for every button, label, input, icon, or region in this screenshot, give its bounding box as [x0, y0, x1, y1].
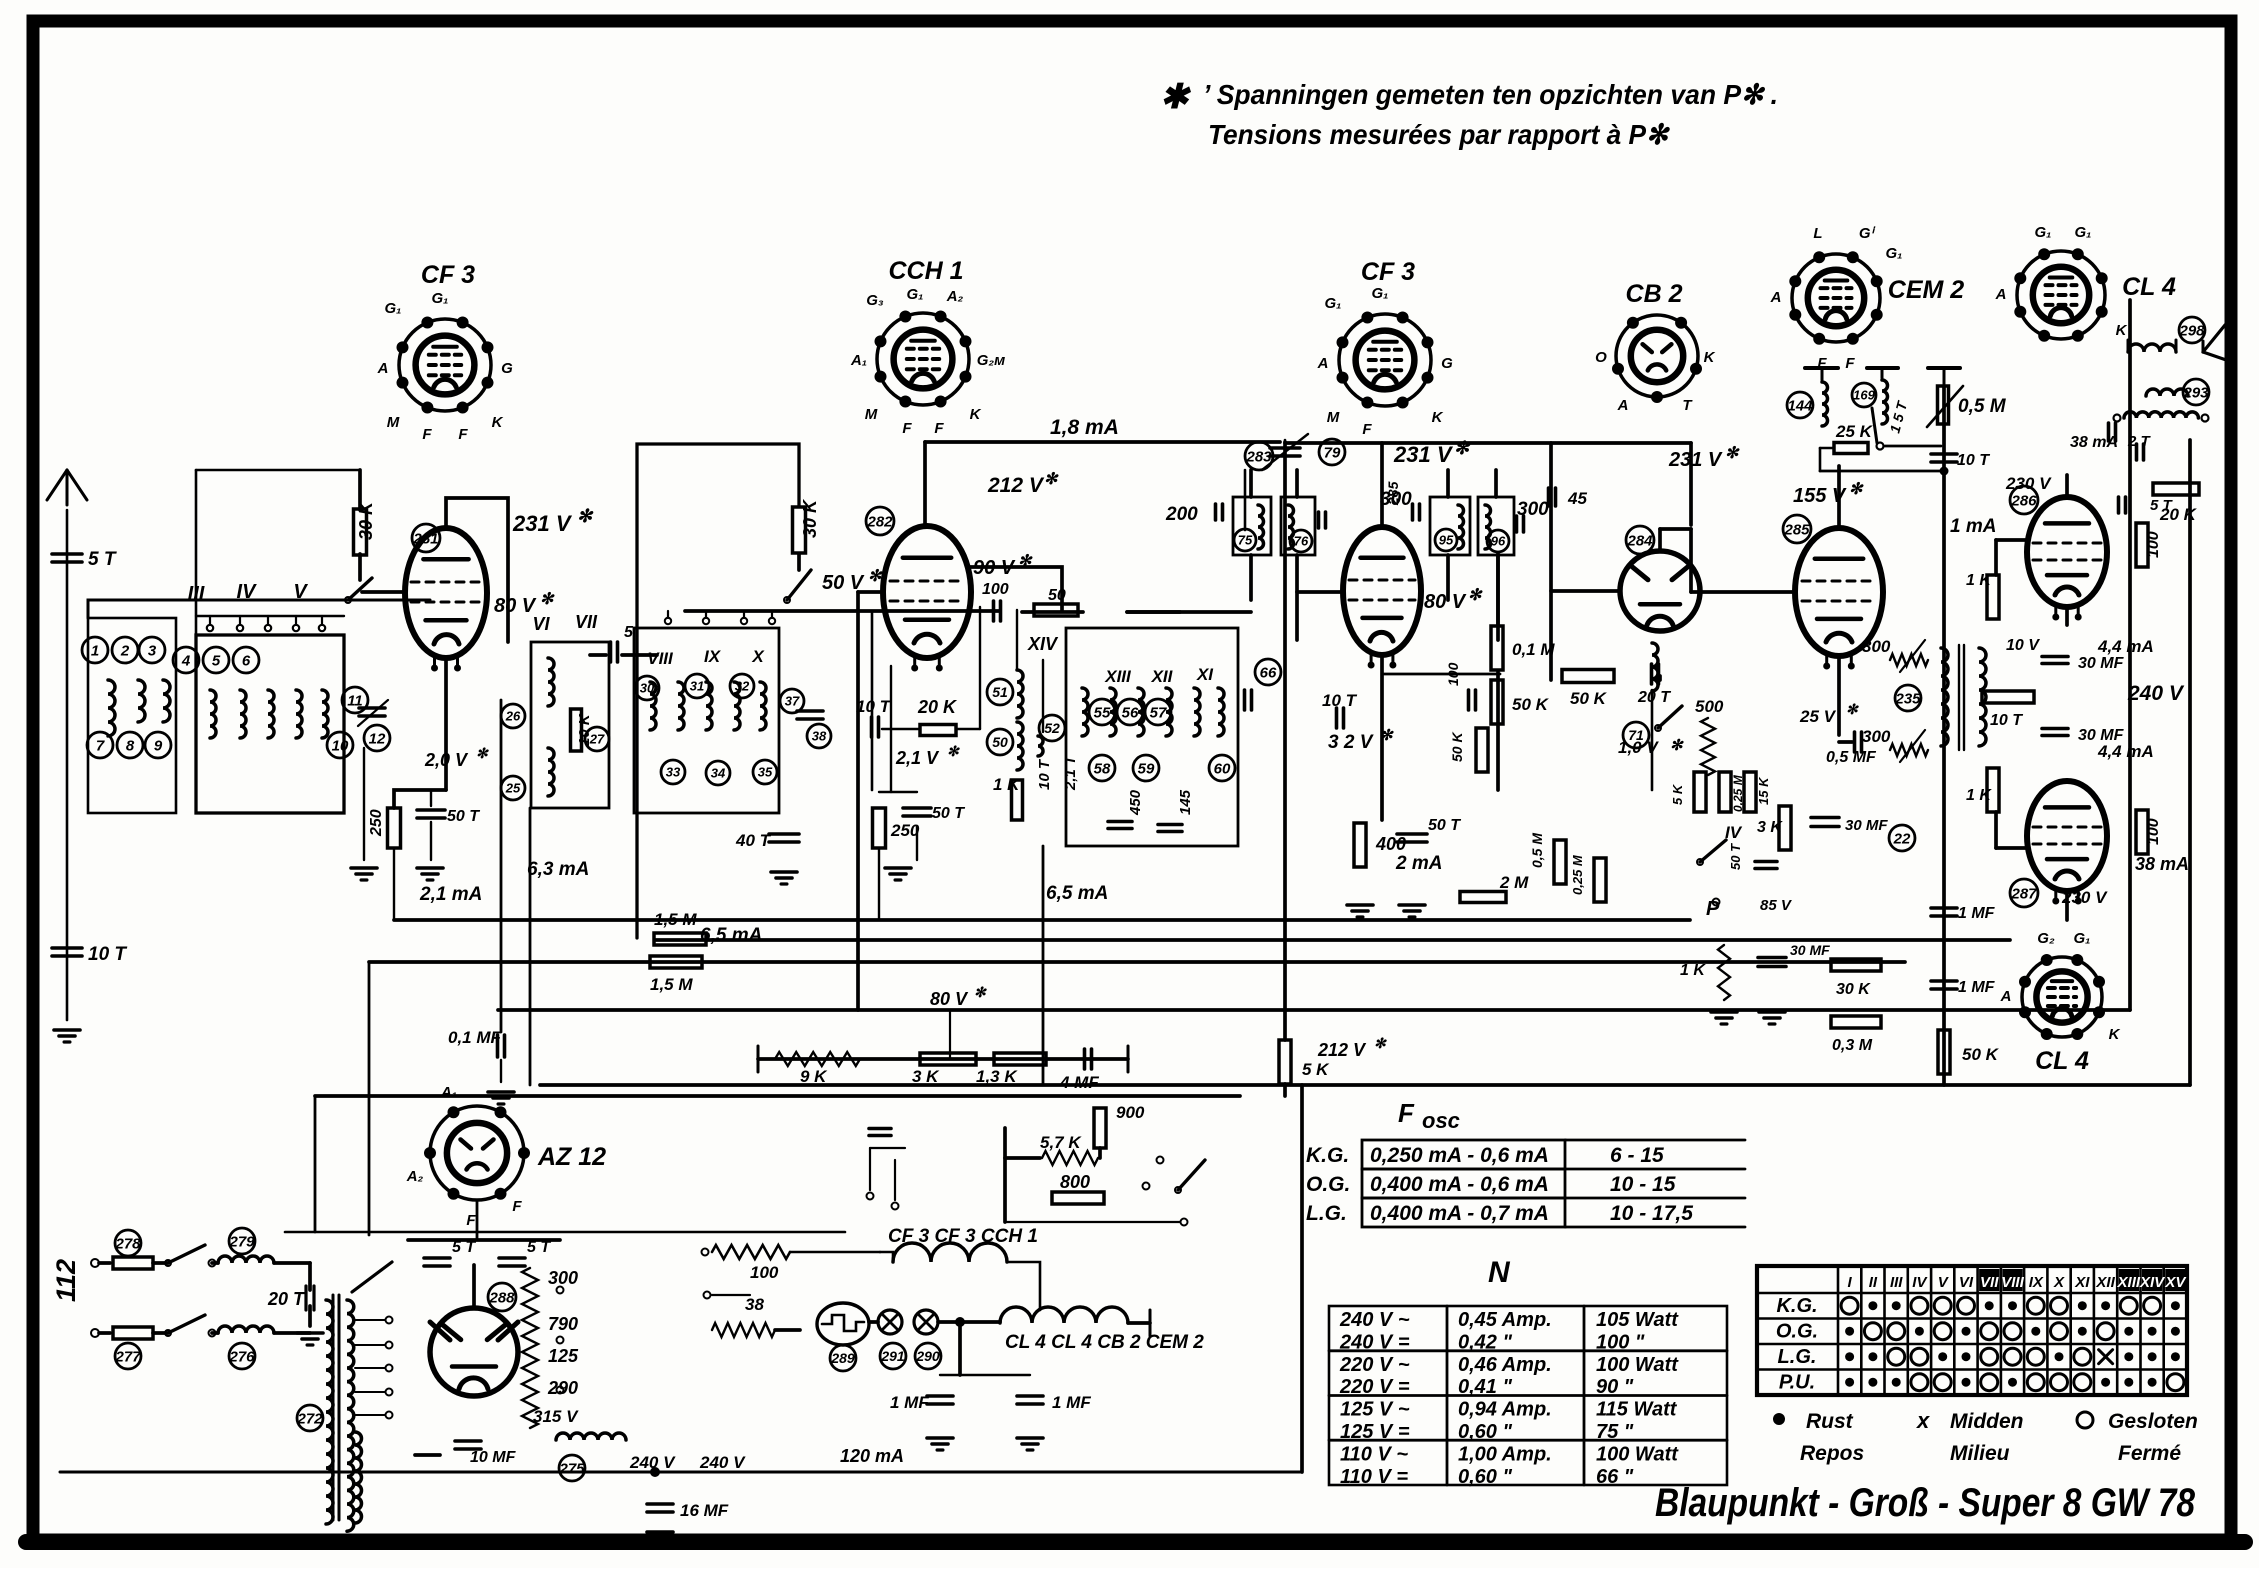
svg-text:400: 400 [1375, 834, 1406, 854]
svg-text:100: 100 [2145, 818, 2162, 845]
svg-text:VII: VII [1980, 1274, 1999, 1291]
svg-text:CCH 1: CCH 1 [888, 257, 963, 285]
svg-text:30 MF: 30 MF [2078, 655, 2125, 672]
svg-text:38 mA: 38 mA [2135, 854, 2189, 874]
svg-text:212 V: 212 V [1317, 1040, 1367, 1060]
svg-text:AZ 12: AZ 12 [537, 1143, 606, 1171]
svg-text:10 - 17,5: 10 - 17,5 [1610, 1202, 1693, 1225]
svg-text:A₂: A₂ [946, 288, 964, 305]
svg-text:5: 5 [624, 624, 634, 641]
svg-text:60: 60 [1214, 760, 1231, 777]
svg-text:38: 38 [812, 729, 827, 744]
svg-text:25: 25 [505, 781, 521, 796]
svg-text:120 mA: 120 mA [840, 1446, 904, 1466]
svg-text:G₁: G₁ [432, 290, 449, 307]
svg-text:✻: ✻ [947, 743, 960, 759]
svg-text:277: 277 [114, 1348, 141, 1365]
svg-text:10 T: 10 T [1036, 758, 1053, 790]
svg-text:80 V: 80 V [1424, 591, 1467, 613]
svg-text:1: 1 [91, 642, 99, 659]
svg-text:K.G.: K.G. [1776, 1295, 1817, 1317]
svg-text:1,5 M: 1,5 M [650, 975, 693, 994]
svg-text:XIV: XIV [2139, 1274, 2166, 1291]
svg-text:20 K: 20 K [917, 697, 958, 717]
svg-text:2 M: 2 M [1499, 873, 1529, 892]
svg-text:1,3 K: 1,3 K [976, 1067, 1018, 1086]
svg-text:6,3 mA: 6,3 mA [527, 859, 589, 880]
svg-text:50 T: 50 T [1728, 843, 1743, 870]
svg-text:298: 298 [2178, 322, 2205, 339]
svg-text:6,5 mA: 6,5 mA [1046, 883, 1108, 904]
svg-text:33: 33 [666, 765, 681, 780]
svg-text:4: 4 [181, 652, 191, 669]
svg-text:30 MF: 30 MF [2078, 727, 2125, 744]
svg-text:115 Watt: 115 Watt [1596, 1399, 1678, 1421]
svg-text:2 mA: 2 mA [1395, 853, 1442, 874]
svg-text:G₁: G₁ [2035, 224, 2052, 241]
svg-text:4,4 mA: 4,4 mA [2097, 637, 2154, 656]
svg-text:35: 35 [758, 765, 773, 780]
svg-text:G₁: G₁ [2074, 930, 2091, 947]
svg-text:CB 2: CB 2 [1626, 280, 1683, 308]
svg-text:Gⁱ: Gⁱ [1859, 225, 1876, 242]
svg-text:1 MF: 1 MF [1052, 1393, 1091, 1412]
svg-text:212 V: 212 V [987, 474, 1045, 497]
svg-text:240 V: 240 V [699, 1453, 746, 1472]
svg-text:1 mA: 1 mA [1950, 516, 1996, 537]
svg-text:K: K [2116, 322, 2128, 339]
svg-text:300: 300 [1380, 489, 1412, 510]
svg-text:169: 169 [1853, 388, 1875, 403]
svg-text:283: 283 [1245, 448, 1272, 465]
svg-text:25 V: 25 V [1799, 707, 1837, 726]
svg-text:1 K: 1 K [1966, 572, 1992, 589]
svg-text:II: II [1869, 1274, 1878, 1291]
svg-text:1 K: 1 K [1680, 962, 1706, 979]
svg-text:10 V: 10 V [2006, 637, 2040, 654]
svg-text:240 V: 240 V [2127, 682, 2185, 705]
svg-text:0,94 Amp.: 0,94 Amp. [1458, 1399, 1552, 1421]
svg-text:X: X [2053, 1274, 2065, 1291]
svg-text:F: F [1845, 355, 1855, 372]
svg-text:A: A [377, 360, 389, 377]
svg-text:500: 500 [1695, 697, 1724, 716]
svg-text:CEM 2: CEM 2 [1888, 276, 1965, 304]
svg-text:G₁: G₁ [1372, 285, 1389, 302]
svg-text:31: 31 [690, 679, 704, 694]
svg-text:231 V: 231 V [1393, 442, 1454, 467]
svg-text:56: 56 [1122, 704, 1139, 721]
svg-text:✻: ✻ [1846, 701, 1859, 717]
svg-text:10 MF: 10 MF [470, 1449, 517, 1466]
svg-text:G₃: G₃ [866, 292, 884, 309]
svg-text:27: 27 [589, 732, 605, 747]
svg-text:0,3 M: 0,3 M [1832, 1037, 1873, 1054]
svg-text:10: 10 [332, 737, 349, 754]
svg-text:10 T: 10 T [1957, 452, 1990, 469]
svg-text:50 T: 50 T [1428, 817, 1461, 834]
svg-text:2: 2 [120, 642, 130, 659]
svg-text:F: F [1398, 1098, 1415, 1128]
svg-text:145: 145 [1177, 789, 1194, 815]
svg-text:’ Spanningen gemeten ten opzic: ’ Spanningen gemeten ten opzichten van P… [1203, 79, 1778, 110]
svg-text:235: 235 [1894, 690, 1921, 707]
svg-text:25 K: 25 K [1835, 422, 1874, 441]
svg-text:293: 293 [2182, 384, 2209, 401]
svg-text:L.G.: L.G. [1778, 1346, 1817, 1368]
svg-text:G₂ᴍ: G₂ᴍ [977, 352, 1005, 369]
svg-text:110 V ~: 110 V ~ [1340, 1443, 1408, 1465]
svg-text:50: 50 [992, 734, 1008, 750]
svg-text:790: 790 [548, 1314, 578, 1334]
svg-text:K: K [2109, 1026, 2121, 1043]
svg-text:281: 281 [412, 530, 438, 547]
svg-text:K: K [970, 406, 982, 423]
svg-text:284: 284 [1626, 532, 1653, 549]
svg-text:M: M [865, 406, 878, 423]
svg-text:1,0 V: 1,0 V [1618, 738, 1659, 757]
svg-text:F: F [466, 1212, 476, 1229]
svg-text:0,400 mA - 0,7 mA: 0,400 mA - 0,7 mA [1370, 1202, 1549, 1225]
svg-text:Midden: Midden [1950, 1410, 2024, 1433]
svg-text:240 V ~: 240 V ~ [1339, 1309, 1410, 1331]
svg-text:800: 800 [1060, 1172, 1090, 1192]
svg-text:1 K: 1 K [993, 775, 1021, 794]
svg-text:L.G.: L.G. [1306, 1202, 1347, 1225]
svg-text:0,60 ": 0,60 " [1458, 1421, 1512, 1443]
svg-text:Rust: Rust [1806, 1410, 1854, 1433]
svg-text:1,00 Amp.: 1,00 Amp. [1458, 1443, 1552, 1465]
svg-text:A: A [1317, 355, 1329, 372]
svg-text:✻: ✻ [577, 506, 594, 526]
svg-text:230 V: 230 V [2005, 474, 2052, 493]
svg-text:275: 275 [558, 1460, 585, 1477]
svg-text:75: 75 [1238, 533, 1253, 548]
svg-text:300: 300 [1862, 637, 1891, 656]
svg-text:O.G.: O.G. [1776, 1321, 1818, 1343]
svg-text:100: 100 [750, 1263, 779, 1282]
svg-text:52: 52 [1044, 720, 1060, 736]
svg-text:100: 100 [1445, 662, 1461, 686]
svg-text:K.G.: K.G. [1306, 1144, 1349, 1167]
svg-text:278: 278 [114, 1235, 141, 1252]
svg-text:20 T: 20 T [1637, 689, 1671, 706]
svg-text:0,5 M: 0,5 M [1958, 396, 2007, 417]
svg-text:50 T: 50 T [447, 808, 480, 825]
svg-text:200: 200 [1165, 504, 1198, 525]
svg-text:M: M [387, 414, 400, 431]
svg-text:30 K: 30 K [800, 498, 820, 538]
svg-text:5,7 K: 5,7 K [1040, 1133, 1082, 1152]
svg-text:22: 22 [1893, 830, 1911, 847]
svg-text:76: 76 [1294, 534, 1309, 549]
svg-text:XII: XII [1151, 667, 1174, 686]
svg-text:66 ": 66 " [1596, 1466, 1634, 1488]
svg-text:291: 291 [880, 1348, 905, 1364]
svg-text:✱: ✱ [1160, 78, 1192, 116]
svg-text:30 MF: 30 MF [1845, 817, 1888, 834]
svg-text:1 K: 1 K [1966, 787, 1992, 804]
svg-text:6,5 mA: 6,5 mA [700, 925, 762, 946]
svg-text:2,1 T: 2,1 T [1062, 754, 1079, 791]
svg-text:900: 900 [1116, 1103, 1145, 1122]
svg-text:IV: IV [1912, 1274, 1928, 1291]
svg-text:279: 279 [228, 1233, 255, 1250]
svg-text:K: K [1432, 409, 1444, 426]
svg-text:300: 300 [548, 1268, 578, 1288]
svg-text:M: M [1327, 409, 1340, 426]
svg-text:osc: osc [1422, 1108, 1460, 1133]
svg-text:III: III [1890, 1274, 1903, 1291]
svg-text:285: 285 [1783, 521, 1810, 538]
svg-text:0,46 Amp.: 0,46 Amp. [1458, 1354, 1552, 1376]
svg-text:10 T: 10 T [1322, 691, 1358, 710]
svg-text:12: 12 [369, 730, 386, 747]
svg-text:G: G [1441, 355, 1453, 372]
svg-text:276: 276 [228, 1348, 255, 1365]
svg-text:30 K: 30 K [1836, 981, 1871, 998]
svg-text:G₁: G₁ [385, 300, 402, 317]
svg-text:100 Watt: 100 Watt [1596, 1443, 1679, 1465]
svg-text:0,5 M: 0,5 M [1529, 833, 1545, 868]
svg-text:Repos: Repos [1800, 1442, 1864, 1465]
svg-text:✻: ✻ [1468, 587, 1483, 604]
svg-text:315 V: 315 V [533, 1407, 579, 1426]
svg-text:125 V ~: 125 V ~ [1340, 1399, 1410, 1421]
svg-text:0,400 mA - 0,6 mA: 0,400 mA - 0,6 mA [1370, 1173, 1549, 1196]
svg-text:55: 55 [1094, 704, 1111, 721]
svg-text:85 V: 85 V [1760, 897, 1793, 914]
svg-text:0,1 MF: 0,1 MF [448, 1028, 502, 1047]
svg-text:50 K: 50 K [1570, 689, 1608, 708]
svg-text:VIII: VIII [2001, 1274, 2024, 1291]
svg-text:VI: VI [1959, 1274, 1974, 1291]
svg-text:0,41 ": 0,41 " [1458, 1376, 1512, 1398]
svg-text:5 K: 5 K [1302, 1060, 1330, 1079]
svg-text:✻: ✻ [974, 984, 987, 1000]
svg-text:✻: ✻ [540, 591, 555, 608]
svg-text:3 K: 3 K [1757, 819, 1783, 836]
svg-text:3 K: 3 K [912, 1067, 940, 1086]
svg-text:100 Watt: 100 Watt [1596, 1354, 1679, 1376]
svg-text:X: X [751, 647, 765, 666]
svg-text:4,4 mA: 4,4 mA [2097, 742, 2154, 761]
svg-text:10 T: 10 T [88, 944, 127, 965]
svg-text:A: A [1617, 397, 1629, 414]
svg-text:✻: ✻ [1725, 445, 1740, 462]
svg-text:300: 300 [1862, 727, 1891, 746]
svg-text:G₁: G₁ [907, 286, 924, 303]
svg-text:A₂: A₂ [406, 1168, 424, 1185]
svg-text:100: 100 [982, 581, 1009, 598]
svg-text:96: 96 [1491, 534, 1506, 549]
svg-text:XI: XI [2074, 1274, 2090, 1291]
svg-text:112: 112 [51, 1259, 81, 1302]
svg-text:XV: XV [2164, 1274, 2187, 1291]
svg-text:26: 26 [505, 709, 521, 724]
svg-text:A: A [1770, 289, 1782, 306]
svg-text:38: 38 [745, 1295, 764, 1314]
svg-text:58: 58 [1094, 760, 1111, 777]
svg-text:240 V =: 240 V = [1339, 1331, 1410, 1353]
svg-text:G: G [501, 360, 513, 377]
svg-text:45: 45 [1567, 489, 1587, 508]
svg-text:A: A [2000, 988, 2012, 1005]
svg-text:VIII: VIII [647, 649, 674, 668]
svg-text:7: 7 [96, 737, 105, 754]
svg-text:P.U.: P.U. [1779, 1372, 1815, 1394]
svg-text:CL 4: CL 4 [2035, 1047, 2089, 1075]
svg-text:CL 4 CL 4 CB 2 CEM 2: CL 4 CL 4 CB 2 CEM 2 [1005, 1332, 1204, 1353]
svg-text:K: K [492, 414, 504, 431]
svg-text:286: 286 [2010, 492, 2037, 509]
svg-text:L: L [1813, 225, 1822, 242]
svg-text:0,5 MF: 0,5 MF [1826, 749, 1877, 766]
svg-text:XIII: XIII [1104, 667, 1132, 686]
svg-text:50 K: 50 K [1449, 732, 1465, 762]
svg-text:F: F [934, 420, 944, 437]
svg-text:5 K: 5 K [1670, 783, 1685, 805]
svg-text:125: 125 [548, 1346, 579, 1366]
svg-text:450: 450 [1127, 789, 1144, 816]
svg-text:✻: ✻ [476, 745, 489, 761]
svg-text:0,60 ": 0,60 " [1458, 1466, 1512, 1488]
svg-text:289: 289 [830, 1350, 855, 1366]
svg-text:10 - 15: 10 - 15 [1610, 1173, 1676, 1196]
svg-text:IV: IV [1725, 823, 1743, 842]
svg-text:CL 4: CL 4 [2122, 273, 2176, 301]
svg-text:66: 66 [1260, 664, 1277, 681]
svg-text:XI: XI [1196, 665, 1214, 684]
svg-text:G₁: G₁ [1325, 295, 1342, 312]
svg-text:0,250 mA - 0,6 mA: 0,250 mA - 0,6 mA [1370, 1144, 1549, 1167]
svg-text:CF 3: CF 3 [421, 261, 475, 289]
svg-text:CF 3: CF 3 [1361, 258, 1415, 286]
svg-text:XIV: XIV [1027, 634, 1059, 654]
svg-text:6 - 15: 6 - 15 [1610, 1144, 1664, 1167]
svg-text:VII: VII [575, 612, 598, 632]
svg-text:272: 272 [296, 1410, 323, 1427]
svg-text:F: F [512, 1198, 522, 1215]
svg-text:0,42 ": 0,42 " [1458, 1331, 1512, 1353]
svg-text:x: x [1916, 1408, 1930, 1433]
svg-text:282: 282 [866, 513, 893, 530]
svg-text:10 T: 10 T [1990, 712, 2023, 729]
svg-text:Blaupunkt - Groß - Super 8 GW: Blaupunkt - Groß - Super 8 GW 78 [1655, 1481, 2196, 1525]
svg-text:220 V =: 220 V = [1339, 1376, 1410, 1398]
svg-text:O: O [1595, 349, 1607, 366]
svg-text:1,5 M: 1,5 M [654, 910, 697, 929]
svg-text:O.G.: O.G. [1306, 1173, 1350, 1196]
svg-text:Fermé: Fermé [2118, 1442, 2181, 1465]
svg-text:0,25 M: 0,25 M [1570, 854, 1585, 895]
svg-text:A: A [1995, 286, 2007, 303]
svg-text:34: 34 [711, 766, 726, 781]
svg-text:1 MF: 1 MF [890, 1393, 929, 1412]
svg-text:20 T: 20 T [267, 1289, 306, 1309]
svg-text:Milieu: Milieu [1950, 1442, 2010, 1465]
svg-text:5 T: 5 T [88, 549, 117, 570]
svg-text:5 T: 5 T [2150, 497, 2174, 514]
svg-text:300: 300 [1517, 499, 1549, 520]
svg-text:250: 250 [890, 821, 920, 840]
svg-text:IX: IX [2029, 1274, 2044, 1291]
svg-text:K: K [1704, 349, 1716, 366]
svg-text:50 T: 50 T [932, 805, 965, 822]
svg-text:75 ": 75 " [1596, 1421, 1634, 1443]
svg-text:F: F [902, 420, 912, 437]
svg-text:16 MF: 16 MF [680, 1501, 729, 1520]
svg-text:Gesloten: Gesloten [2108, 1410, 2198, 1433]
svg-text:80 V: 80 V [930, 989, 969, 1009]
svg-text:79: 79 [1324, 444, 1341, 461]
svg-text:30: 30 [640, 681, 655, 696]
svg-text:40 T: 40 T [735, 831, 772, 850]
svg-text:110 V =: 110 V = [1340, 1466, 1408, 1488]
svg-text:80 V: 80 V [494, 595, 537, 617]
svg-text:XIII: XIII [2117, 1274, 2141, 1291]
svg-text:IX: IX [704, 647, 722, 666]
svg-text:231 V: 231 V [1668, 449, 1723, 471]
svg-text:231 V: 231 V [512, 511, 573, 536]
svg-text:G₁: G₁ [2075, 224, 2092, 241]
svg-text:144: 144 [1787, 397, 1813, 414]
svg-text:✻: ✻ [1849, 481, 1864, 498]
svg-text:✻: ✻ [1454, 438, 1471, 458]
svg-text:100 ": 100 " [1596, 1331, 1645, 1353]
svg-text:2,1 V: 2,1 V [895, 748, 940, 768]
svg-text:9 K: 9 K [800, 1067, 828, 1086]
svg-text:2,1 mA: 2,1 mA [419, 884, 482, 905]
svg-text:37: 37 [785, 694, 800, 709]
svg-text:30 MF: 30 MF [1790, 942, 1830, 958]
svg-text:✻: ✻ [1374, 1035, 1387, 1051]
svg-text:F: F [458, 426, 468, 443]
svg-text:100: 100 [2145, 531, 2162, 558]
svg-text:0,1 M: 0,1 M [1512, 640, 1555, 659]
svg-text:287: 287 [2010, 885, 2037, 902]
svg-text:4 MF: 4 MF [1059, 1073, 1099, 1092]
svg-text:125 V =: 125 V = [1340, 1421, 1410, 1443]
svg-text:5: 5 [212, 652, 221, 669]
svg-text:G₁: G₁ [1886, 245, 1903, 262]
svg-text:3: 3 [148, 642, 157, 659]
svg-text:1,8 mA: 1,8 mA [1050, 416, 1119, 439]
svg-text:50 K: 50 K [1962, 1045, 2000, 1064]
svg-text:A₁: A₁ [440, 1084, 457, 1101]
svg-text:F: F [1362, 421, 1372, 438]
svg-text:38 mA: 38 mA [2070, 434, 2118, 451]
svg-text:90 ": 90 " [1596, 1376, 1634, 1398]
svg-text:9: 9 [154, 737, 163, 754]
svg-text:59: 59 [1138, 760, 1155, 777]
svg-text:15 K: 15 K [1756, 776, 1771, 805]
svg-text:✻: ✻ [868, 568, 883, 585]
svg-text:✻: ✻ [1044, 471, 1059, 488]
svg-text:A₁: A₁ [850, 352, 867, 369]
svg-text:220 V ~: 220 V ~ [1339, 1354, 1410, 1376]
svg-text:95: 95 [1439, 533, 1454, 548]
svg-text:✻: ✻ [1670, 737, 1684, 754]
svg-text:290: 290 [915, 1348, 940, 1364]
svg-text:0,45 Amp.: 0,45 Amp. [1458, 1309, 1552, 1331]
svg-text:51: 51 [992, 684, 1008, 700]
svg-text:3 2 V: 3 2 V [1328, 732, 1374, 753]
svg-text:1 MF: 1 MF [1958, 979, 1996, 996]
svg-text:250: 250 [368, 809, 385, 837]
svg-text:288: 288 [488, 1289, 515, 1306]
svg-text:6: 6 [242, 652, 251, 669]
